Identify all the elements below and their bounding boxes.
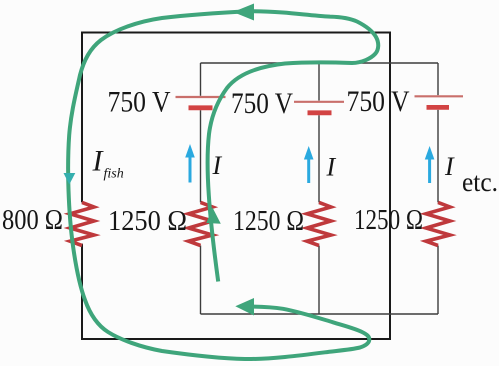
svg-text:1250 Ω: 1250 Ω (354, 204, 423, 236)
wire inner bottom (201, 313, 439, 315)
svg-text:750 V: 750 V (108, 86, 171, 119)
wire outer left upper (81, 32, 83, 203)
wire branch2 upper (318, 63, 320, 101)
blue arrow I branch2 (304, 146, 314, 183)
wire branch2 lower (318, 246, 320, 315)
wire branch3 mid (437, 110, 439, 203)
green arrowhead up (through R1) (206, 208, 221, 224)
resistor R2 1250 ohm (307, 202, 331, 245)
wire branch1 lower (200, 246, 202, 315)
svg-text:I: I (444, 152, 455, 181)
battery B3 750V (415, 96, 464, 107)
teal arrowhead down (I_fish direction) (64, 173, 76, 185)
svg-text:fish: fish (104, 167, 124, 182)
svg-text:800 Ω: 800 Ω (2, 204, 63, 236)
wire branch1 mid (200, 110, 202, 202)
wire outer bottom (82, 338, 390, 340)
wire outer top (82, 32, 390, 34)
wire branch3 lower (437, 246, 439, 315)
battery B2 750V (294, 102, 344, 113)
green current loop path (68, 11, 378, 359)
wire inner top (201, 62, 439, 64)
svg-text:1250 Ω: 1250 Ω (108, 205, 187, 237)
wire branch2 mid (318, 115, 320, 202)
blue arrow I branch1 (185, 144, 195, 183)
svg-text:750 V: 750 V (347, 85, 410, 118)
svg-text:I: I (212, 151, 223, 180)
wire outer right (389, 32, 391, 341)
svg-text:I: I (326, 153, 337, 182)
green arrowhead left (top) (233, 4, 254, 21)
svg-text:750 V: 750 V (231, 87, 293, 120)
wire branch1 upper (200, 63, 202, 96)
outer loop rectangle (tank wall) (82, 32, 390, 341)
wire outer left lower (81, 244, 83, 340)
resistor R1 1250 ohm (189, 202, 213, 245)
blue arrow I branch3 (425, 146, 435, 183)
svg-text:1250 Ω: 1250 Ω (233, 205, 304, 237)
green arrowhead left (inner bottom) (235, 298, 254, 316)
svg-text:etc.: etc. (462, 167, 498, 197)
wire branch3 upper (437, 63, 439, 95)
resistor R3 1250 ohm (426, 202, 450, 245)
inner network rectangle (201, 63, 439, 314)
battery B1 750V (176, 97, 226, 108)
resistor 800 ohm (fish) (70, 202, 94, 245)
